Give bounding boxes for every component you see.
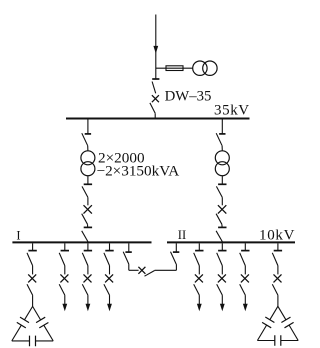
svg-text:I: I [16, 228, 20, 242]
disconnector blade above breaker QF1 [152, 82, 156, 94]
wire bus to disconnector (feeder F3) [87, 243, 89, 250]
circuit breaker X (feeder F3) [84, 274, 92, 282]
blade below breaker (feeder F8) [272, 284, 278, 295]
disconnector contact tick above breaker QF1 [152, 78, 159, 80]
outgoing-line arrow (feeder F5) [197, 304, 202, 312]
power-flow arrow on incoming line [153, 46, 158, 54]
wire down to capacitor bank (feeder F8) [277, 295, 279, 307]
wire delta bottom left (C2) [257, 340, 274, 342]
wire delta bottom right (C1) [36, 340, 54, 342]
wire down to outgoing arrow (feeder F2) [64, 295, 66, 305]
disconnector blade (feeder F1) [27, 253, 33, 266]
wire down to tie link (bus I side) [128, 264, 130, 270]
wire delta left side (capacitor bank C2) [270, 306, 278, 320]
tie disconnector blade (bus II side) [171, 252, 177, 264]
svg-text:−2×3150kVA: −2×3150kVA [97, 163, 180, 180]
disconnector tick (feeder F6) [218, 250, 226, 252]
svg-text:35kV: 35kV [214, 102, 250, 118]
10kV busbar section I [12, 241, 151, 243]
tie disconnector tick (bus II side) [173, 251, 179, 253]
blade below breaker of T1 bay [82, 214, 88, 225]
wire delta left side lower part (C2) [257, 325, 266, 340]
wire bus to disconnector (feeder F4) [109, 243, 111, 250]
disconnector tick (feeder F1) [28, 250, 36, 252]
disconnector blade (feeder F2) [59, 253, 65, 266]
outgoing-line arrow (feeder F6) [220, 304, 225, 312]
svg-text:II: II [178, 228, 186, 242]
open tie switch blade [145, 271, 155, 277]
bus-side disconnector blade (T2 bay) [216, 231, 222, 242]
wire bus to disconnector (feeder F2) [64, 243, 66, 250]
blade below breaker of T2 bay [216, 214, 222, 225]
disconnector QS tick (T2 bay, above transformer) [219, 133, 225, 135]
wire delta right side lower part (C1) [44, 325, 53, 341]
wire bus I to tie disconnector [128, 243, 130, 252]
wire from breaker QF1 to 35kV bus [154, 113, 156, 118]
svg-text:10kV: 10kV [259, 228, 295, 244]
blade below breaker (feeder F5) [194, 284, 200, 295]
circuit breaker (X mark) of T2 bay [218, 205, 226, 213]
bus-side disconnector blade (T1 bay) [82, 231, 88, 242]
disconnector blade below transformer T2 [216, 186, 222, 197]
wire delta right side (capacitor bank C2) [278, 306, 286, 320]
wire to breaker (T2 bay) [221, 197, 223, 205]
wire delta bottom left (C1) [12, 340, 30, 342]
wire to breaker (feeder F4) [109, 266, 111, 275]
circuit breaker X (feeder F7) [241, 274, 249, 282]
wire down to capacitor bank (feeder F1) [32, 295, 34, 307]
wire delta left side lower part (C1) [12, 325, 21, 341]
circuit breaker X (feeder F2) [60, 274, 68, 282]
capacitor plates on delta left side (C1) [17, 317, 29, 328]
blade below breaker (feeder F2) [59, 284, 65, 295]
svg-text:DW–35: DW–35 [165, 89, 212, 105]
disconnector QS blade (T2 bay, above transformer) [216, 133, 222, 146]
10kV busbar section II [167, 241, 295, 243]
wire bus to disconnector (feeder F7) [244, 243, 246, 250]
wire down to outgoing arrow (feeder F7) [244, 295, 246, 305]
wire transformer T2 to lower disconnector [221, 176, 223, 185]
tie disconnector tick (bus I side) [125, 251, 131, 253]
wire delta bottom right (C2) [281, 340, 298, 342]
capacitor plates on delta bottom (C1) [30, 336, 36, 347]
circuit breaker (X mark) of T1 bay [84, 205, 92, 213]
wire to bus-side disconnector (T1 bay) [87, 224, 89, 227]
wire delta left side (capacitor bank C1) [25, 306, 33, 319]
disconnector tick (feeder F7) [241, 250, 249, 252]
wire to breaker (feeder F3) [87, 266, 89, 275]
outgoing-line arrow (feeder F4) [107, 304, 112, 312]
wire bus to disconnector (feeder F5) [198, 243, 200, 250]
transformer T2 primary winding [215, 151, 229, 165]
wire down to outgoing arrow (feeder F4) [109, 295, 111, 305]
wire tie disconnector to bus II [175, 243, 177, 252]
circuit breaker X (feeder F1) [28, 274, 36, 282]
disconnector tick (feeder F4) [105, 250, 113, 252]
wire to bus-side disconnector (T2 bay) [221, 224, 223, 227]
disconnector QS tick (T1 bay, above transformer) [85, 133, 91, 135]
circuit breaker X (feeder F8) [274, 274, 282, 282]
blade below breaker (feeder F6) [217, 284, 223, 295]
wire to breaker (feeder F1) [32, 266, 34, 275]
disconnector blade (feeder F7) [240, 253, 246, 266]
wire down to outgoing arrow (feeder F6) [221, 295, 223, 305]
disconnector QS blade (T1 bay, above transformer) [82, 133, 88, 146]
35kV busbar [66, 118, 250, 120]
disconnector blade (feeder F6) [217, 253, 223, 266]
disconnector blade below transformer T1 [82, 186, 88, 197]
circuit breaker X (feeder F6) [218, 274, 226, 282]
wire bus to disconnector (feeder F6) [221, 243, 223, 250]
capacitor plates on delta left side (C2) [262, 317, 274, 328]
tie disconnector blade (bus I side) [123, 252, 129, 264]
bus-tie breaker X mark [138, 267, 145, 274]
circuit breaker X (feeder F4) [105, 274, 113, 282]
outgoing-line arrow (feeder F3) [86, 304, 91, 312]
wire to breaker (feeder F2) [64, 266, 66, 275]
disconnector blade (feeder F4) [104, 253, 110, 266]
capacitor plates on delta right side (C1) [36, 317, 48, 328]
disconnector blade (feeder F5) [194, 253, 200, 266]
outgoing-line arrow (feeder F7) [243, 304, 248, 312]
bus-side disconnector tick (T1 bay) [84, 226, 92, 228]
wire delta right side lower part (C2) [289, 325, 298, 340]
wire to breaker (feeder F6) [221, 266, 223, 275]
disconnector blade (feeder F8) [272, 253, 278, 266]
disconnector blade (feeder F3) [82, 253, 88, 266]
circuit breaker X (feeder F5) [195, 274, 203, 282]
blade below breaker (feeder F1) [27, 284, 33, 295]
disconnector tick (feeder F2) [61, 250, 69, 252]
voltage transformer TV (two overlapping circles) [193, 61, 207, 75]
tie link horizontal wire (right) [155, 269, 177, 271]
wire down to outgoing arrow (feeder F5) [198, 295, 200, 305]
tie link horizontal wire (left) [129, 269, 139, 271]
outgoing-line arrow (feeder F2) [62, 304, 67, 312]
transformer T1 secondary winding [81, 162, 95, 176]
capacitor plates on delta right side (C2) [281, 317, 293, 328]
bus-side disconnector tick (T2 bay) [218, 226, 226, 228]
blade below breaker QF1 [150, 103, 155, 113]
wire bus to disconnector (feeder F1) [32, 243, 34, 250]
wire to breaker (feeder F5) [198, 266, 200, 275]
transformer T1 primary winding [81, 151, 95, 165]
capacitor plates on delta bottom (C2) [275, 335, 281, 346]
wire to transformer T2 [221, 146, 223, 151]
wire delta right side (capacitor bank C1) [33, 306, 41, 320]
disconnector tick (feeder F5) [195, 250, 203, 252]
disconnector tick below transformer T2 [218, 183, 226, 185]
wire 35kV bus to disconnector (T1 bay) [87, 120, 89, 134]
wire to transformer T1 [87, 146, 89, 151]
fuse FU1 (rectangle on metering branch) [166, 66, 183, 71]
blade below breaker (feeder F3) [82, 284, 88, 295]
transformer T2 secondary winding [215, 162, 229, 176]
wire to breaker (T1 bay) [87, 197, 89, 205]
wire 35kV bus to disconnector (T2 bay) [221, 120, 223, 134]
wire branch to metering set [156, 67, 193, 69]
disconnector tick below transformer T1 [84, 183, 92, 185]
blade below breaker (feeder F4) [104, 284, 110, 295]
disconnector tick (feeder F8) [274, 250, 282, 252]
circuit breaker QF1 (X mark) DW-35 [152, 95, 159, 102]
wire transformer T1 to lower disconnector [87, 176, 89, 185]
wire up from tie link (bus II side) [175, 264, 177, 270]
wire to breaker (feeder F7) [244, 266, 246, 275]
wire to breaker (feeder F8) [277, 266, 279, 275]
disconnector tick (feeder F3) [84, 250, 92, 252]
wire down to outgoing arrow (feeder F3) [87, 295, 89, 305]
wire bus to disconnector (feeder F8) [277, 243, 279, 250]
wire incoming 35kV supply line [155, 15, 157, 80]
blade below breaker (feeder F7) [240, 284, 246, 295]
